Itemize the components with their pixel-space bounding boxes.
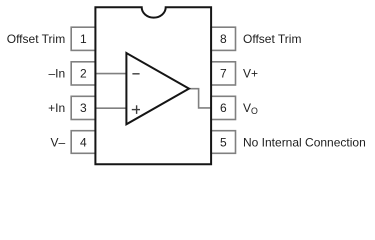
svg-text:2: 2 bbox=[80, 67, 87, 81]
svg-text:7: 7 bbox=[220, 67, 227, 81]
wire op-amp output to pin 6 bbox=[189, 89, 212, 108]
svg-text:Offset Trim: Offset Trim bbox=[7, 32, 65, 46]
op-amp A1 triangle bbox=[126, 53, 189, 124]
pin 5 box bbox=[211, 131, 235, 154]
svg-text:V–: V– bbox=[51, 136, 66, 150]
pin 1 box bbox=[71, 27, 95, 50]
pin 2 box bbox=[71, 62, 95, 85]
pin 4 box bbox=[71, 131, 95, 154]
wire pin3 to non-inverting input bbox=[95, 107, 126, 109]
svg-text:Offset Trim: Offset Trim bbox=[243, 32, 301, 46]
svg-text:4: 4 bbox=[80, 136, 87, 150]
svg-text:+In: +In bbox=[48, 101, 65, 115]
pin 8 box bbox=[211, 27, 235, 50]
svg-text:3: 3 bbox=[80, 101, 87, 115]
svg-text:8: 8 bbox=[220, 32, 227, 46]
svg-text:–In: –In bbox=[49, 67, 66, 81]
pin 3 box bbox=[71, 96, 95, 119]
wire pin2 to inverting input bbox=[95, 73, 126, 75]
svg-text:No Internal Connection: No Internal Connection bbox=[243, 136, 366, 150]
svg-text:V+: V+ bbox=[243, 67, 258, 81]
inverting input minus symbol bbox=[132, 73, 139, 75]
svg-text:VO: VO bbox=[243, 101, 258, 116]
pin 7 box bbox=[211, 62, 235, 85]
svg-text:5: 5 bbox=[220, 136, 227, 150]
svg-text:6: 6 bbox=[220, 101, 227, 115]
svg-text:1: 1 bbox=[80, 32, 87, 46]
pin 6 box bbox=[211, 96, 235, 119]
IC package body U1 (8-pin DIP outline with index notch) bbox=[95, 7, 211, 164]
non-inverting input plus symbol bbox=[132, 105, 140, 114]
